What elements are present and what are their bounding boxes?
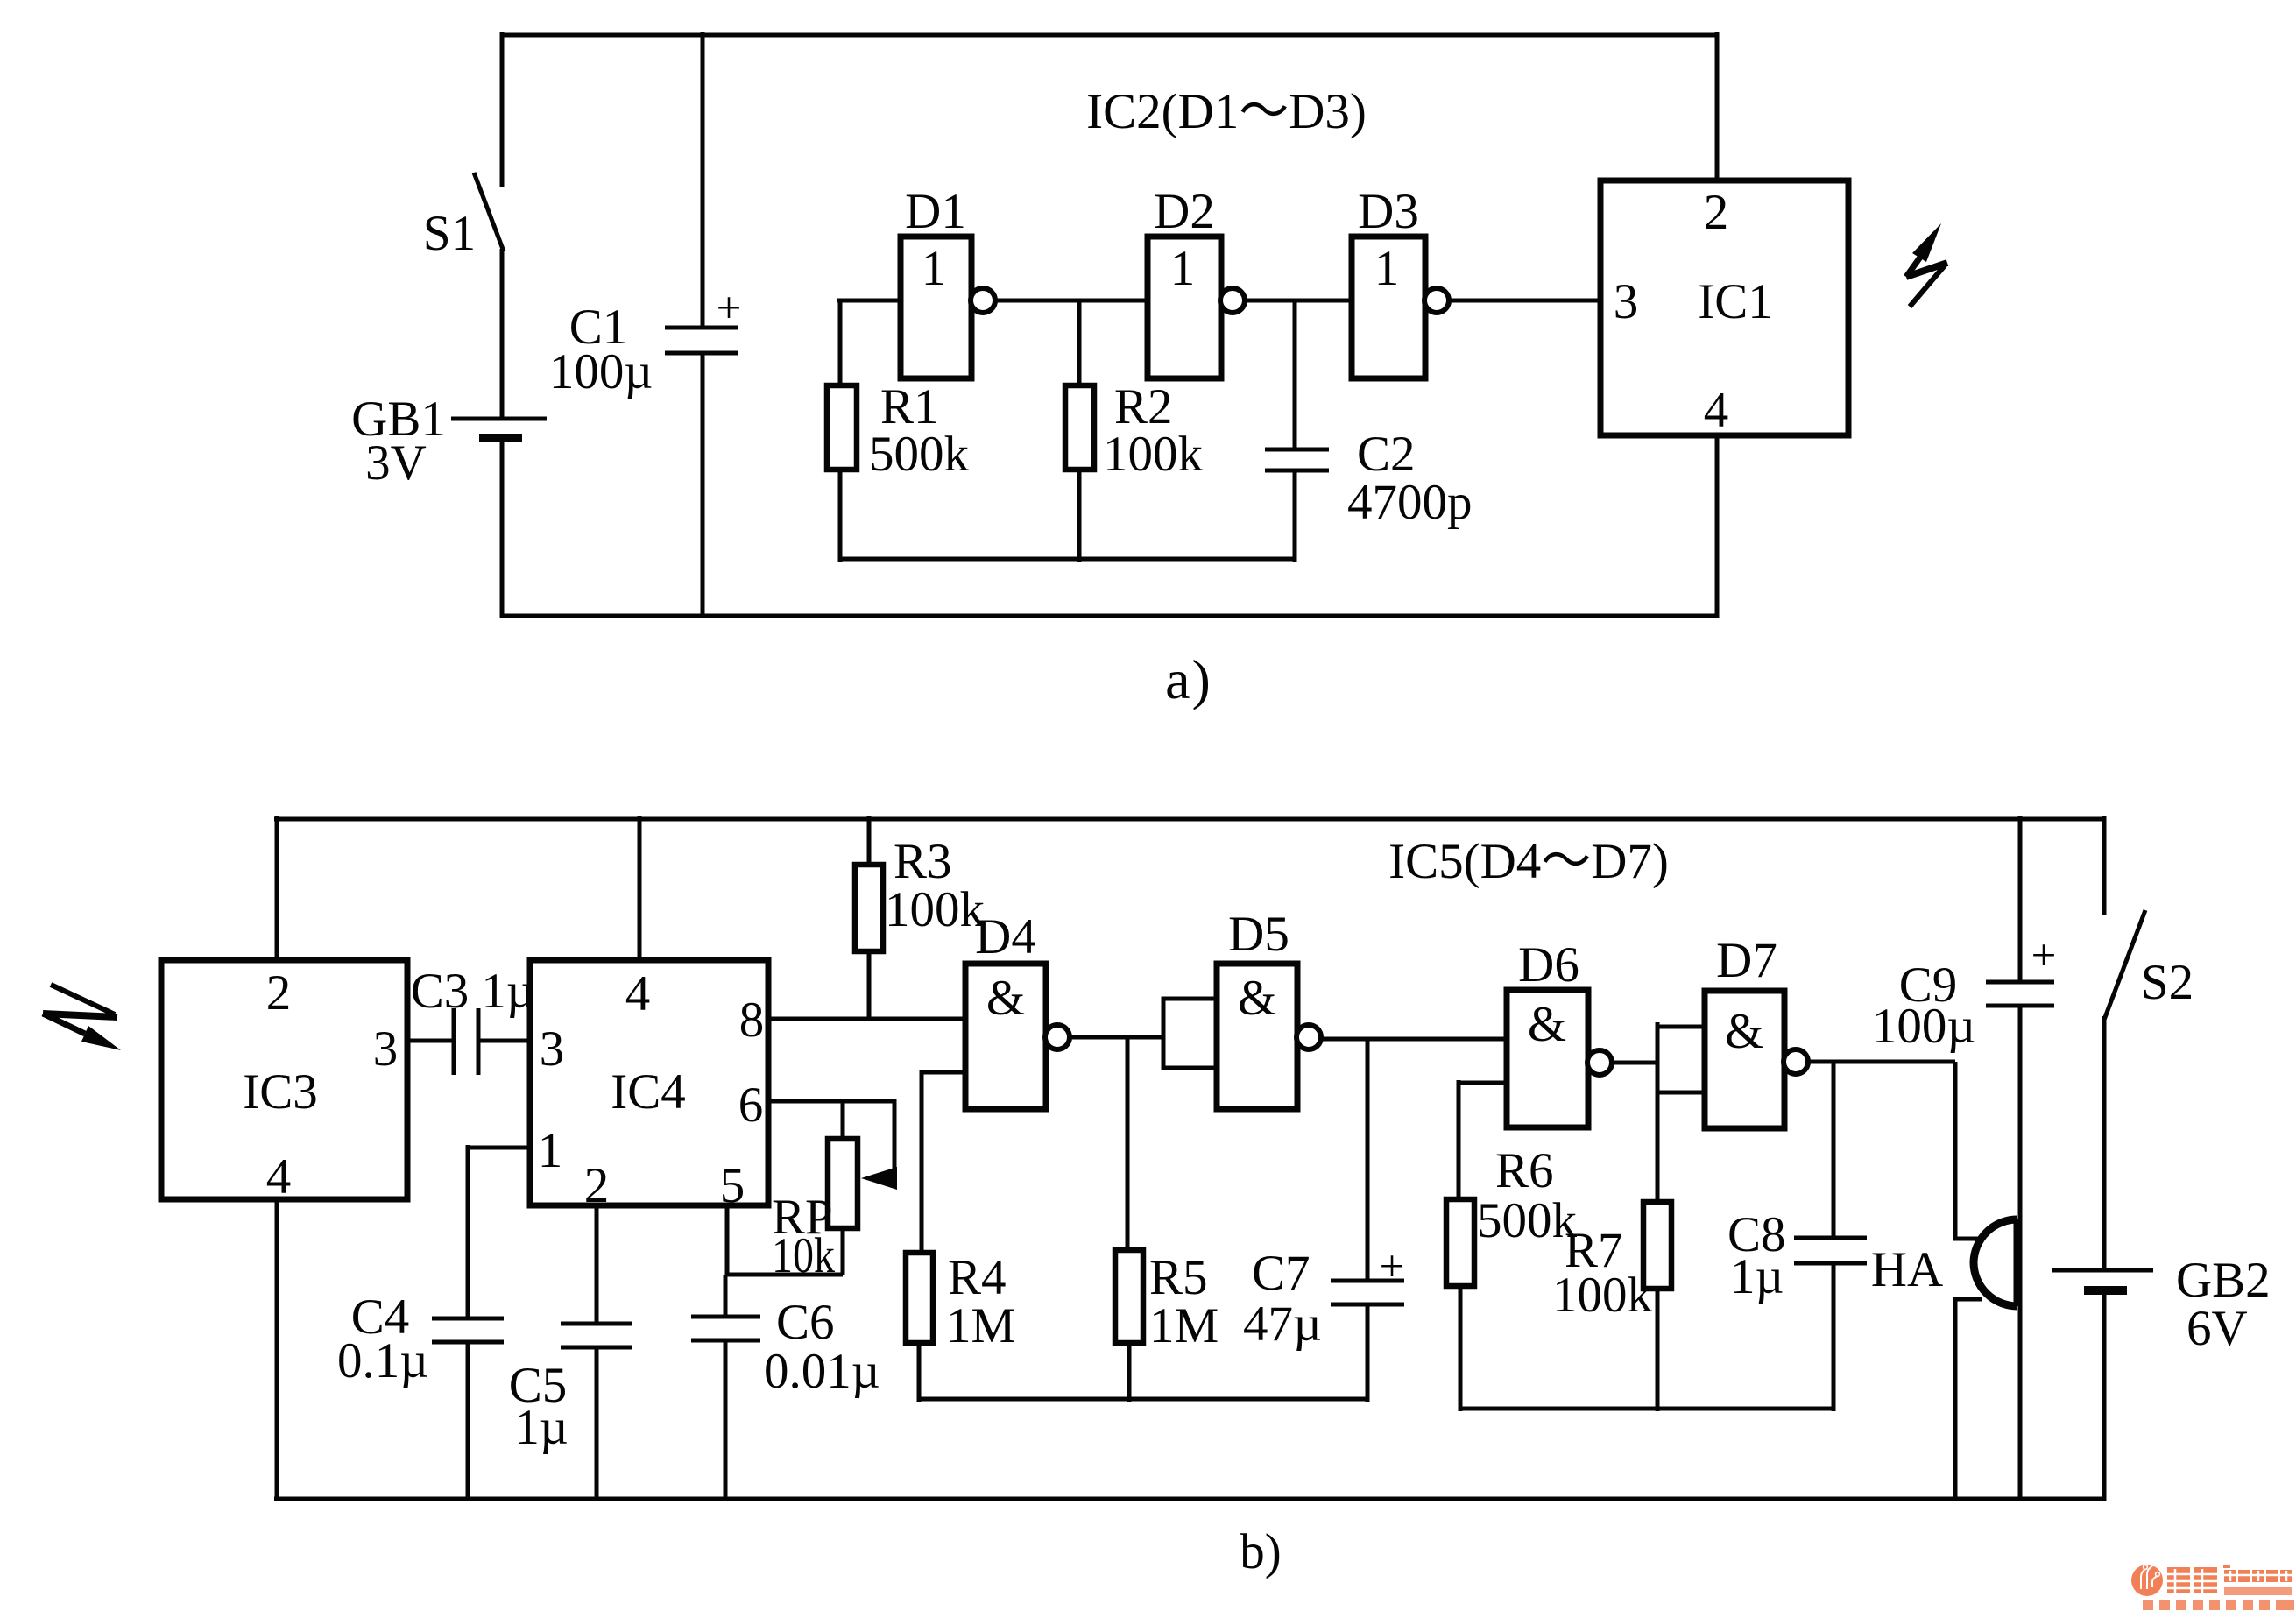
svg-text:1µ: 1µ	[1730, 1249, 1784, 1304]
battery GB2 6V	[2052, 1253, 2271, 1356]
svg-text:IC5(D4～D7): IC5(D4～D7)	[1388, 834, 1669, 889]
wire: junction drop to C2	[1293, 300, 1297, 449]
IC1 transmitter module	[1600, 180, 1848, 438]
wire: D5 output to D6 upper input	[1320, 1037, 1507, 1042]
svg-text:4: 4	[266, 1149, 292, 1205]
svg-text:6: 6	[738, 1078, 764, 1133]
svg-text:6V: 6V	[2186, 1301, 2248, 1356]
watermark brand blocks	[2167, 1565, 2292, 1593]
label IC2(D1~D3)	[1086, 84, 1367, 139]
svg-text:100µ: 100µ	[549, 344, 653, 399]
svg-text:2: 2	[1704, 185, 1729, 240]
svg-text:2: 2	[266, 965, 292, 1021]
inverter gate D3	[1352, 184, 1449, 378]
svg-text:500k: 500k	[1477, 1193, 1578, 1248]
label a)	[1165, 648, 1212, 710]
wire: bottom rail of circuit b	[274, 1497, 2104, 1501]
capacitor C5 1u	[509, 1324, 632, 1501]
wire: IC4 pin 1 stub	[468, 1146, 530, 1150]
wire: top supply rail of circuit a	[502, 33, 1717, 38]
wire: junction drop to R5	[1126, 1037, 1130, 1250]
wire: IC3 pin 4 to bottom rail	[275, 1199, 279, 1501]
wire: left vertical from top rail to switch S1	[500, 32, 505, 187]
wire: junction drop to R2	[1077, 300, 1082, 390]
inverter gate D1	[901, 184, 995, 378]
svg-text:100k: 100k	[1103, 427, 1204, 482]
svg-text:D6: D6	[1518, 937, 1579, 993]
svg-text:10k: 10k	[772, 1228, 835, 1283]
svg-text:0.01µ: 0.01µ	[764, 1344, 880, 1399]
svg-text:3: 3	[540, 1021, 565, 1077]
wire: junction drop to C8	[1832, 1062, 1836, 1238]
svg-text:&: &	[986, 971, 1025, 1026]
resistor R2 100k	[1065, 379, 1204, 562]
svg-text:IC2(D1～D3): IC2(D1～D3)	[1086, 84, 1367, 139]
svg-text:&: &	[1725, 1004, 1763, 1059]
svg-text:500k: 500k	[869, 427, 970, 482]
svg-text:IC1: IC1	[1698, 274, 1773, 329]
svg-text:4700p: 4700p	[1347, 475, 1473, 530]
svg-text:1: 1	[922, 241, 947, 296]
svg-text:IC3: IC3	[243, 1064, 318, 1120]
svg-text:100µ: 100µ	[1872, 999, 1975, 1054]
watermark url text	[2224, 1587, 2292, 1595]
svg-text:R3: R3	[894, 834, 952, 889]
svg-text:b): b)	[1240, 1524, 1281, 1579]
wire: S1 to battery GB1	[500, 249, 505, 419]
antenna radio-wave arrow of receiver	[43, 985, 121, 1050]
capacitor C2 4700p	[1265, 427, 1473, 562]
svg-text:D5: D5	[1228, 907, 1289, 962]
svg-text:HA: HA	[1871, 1242, 1943, 1297]
wire: bottom rail of circuit a	[502, 614, 1717, 618]
wire: top supply rail of circuit b	[274, 817, 2104, 822]
svg-text:D4: D4	[975, 909, 1036, 964]
svg-text:+: +	[717, 284, 742, 333]
nand gate D5	[1217, 907, 1321, 1109]
resistor R4 1M	[906, 1070, 1015, 1402]
wire: IC4 pin 2 to C5	[595, 1205, 599, 1324]
watermark logo circle	[2131, 1562, 2163, 1596]
antenna radio-wave arrow of transmitter	[1906, 223, 1947, 307]
capacitor C3 1u	[411, 964, 535, 1075]
capacitor C8 1u	[1727, 1207, 1867, 1411]
label b)	[1240, 1524, 1281, 1579]
svg-text:100k: 100k	[1552, 1268, 1653, 1323]
battery GB1 3V	[351, 392, 547, 491]
svg-text:0.1µ: 0.1µ	[337, 1333, 428, 1388]
wire: D4 lower input from R4	[922, 1070, 965, 1075]
resistor R6 500k	[1446, 1080, 1578, 1411]
svg-text:+: +	[2031, 931, 2057, 980]
svg-text:100k: 100k	[885, 882, 986, 937]
wire: buzzer feed down and stubs	[1955, 1062, 1982, 1501]
potentiometer RP 10k	[772, 1099, 897, 1283]
wire: D6 lower input from R6	[1459, 1081, 1507, 1085]
wire: D1 output to D2 input	[994, 299, 1148, 303]
wire: D6 output to D7	[1611, 1061, 1657, 1065]
wire: junction drop to C7	[1366, 1039, 1370, 1281]
svg-text:IC4: IC4	[611, 1064, 686, 1120]
svg-text:&: &	[1528, 997, 1566, 1052]
wire: IC3 pin 3 to C3	[407, 1039, 454, 1043]
wire: pin-5 junction to RP wiper-end	[727, 1273, 843, 1277]
switch S2	[2104, 816, 2194, 1020]
svg-text:C3: C3	[411, 964, 470, 1019]
svg-text:1: 1	[538, 1123, 563, 1178]
capacitor C6 0.01u	[691, 1275, 880, 1501]
svg-text:D1: D1	[905, 184, 966, 239]
wire: D2 output to D3 input	[1244, 299, 1352, 303]
wire: right drop from top rail to IC1 pin 2	[1715, 32, 1720, 180]
wire: IC4 pin 8 to D4 input	[768, 1017, 965, 1021]
nand gate D7	[1705, 933, 1808, 1128]
svg-text:a): a)	[1165, 648, 1212, 710]
svg-text:4: 4	[1704, 383, 1729, 438]
watermark slogan blocks	[2143, 1600, 2294, 1610]
svg-text:&: &	[1238, 971, 1276, 1026]
svg-text:C7: C7	[1252, 1246, 1310, 1301]
svg-text:R5: R5	[1149, 1250, 1208, 1305]
label IC5(D4~D7)	[1388, 834, 1669, 889]
resistor R3 100k	[855, 816, 986, 1019]
capacitor C4 0.1u	[337, 1145, 504, 1501]
svg-text:D7: D7	[1716, 933, 1777, 988]
svg-text:3: 3	[373, 1021, 399, 1077]
wire: IC4 pin 5 down to junction	[725, 1205, 730, 1275]
svg-text:47µ: 47µ	[1243, 1297, 1322, 1352]
svg-text:R4: R4	[948, 1250, 1007, 1305]
svg-text:R6: R6	[1495, 1143, 1554, 1198]
svg-text:S2: S2	[2141, 955, 2194, 1010]
svg-text:2: 2	[584, 1158, 610, 1213]
wire: IC4 pin 6 node to potentiometer	[768, 1099, 894, 1104]
wire: D7 output to buzzer branch	[1807, 1060, 1955, 1064]
svg-text:4: 4	[625, 966, 651, 1021]
svg-text:1: 1	[1374, 241, 1400, 296]
svg-text:D3: D3	[1358, 184, 1419, 239]
svg-text:+: +	[1380, 1242, 1405, 1291]
svg-text:GB2: GB2	[2176, 1253, 2271, 1308]
switch S1	[423, 173, 504, 261]
svg-text:S1: S1	[423, 206, 476, 261]
wire: D3 output to IC1 pin 3	[1448, 299, 1600, 303]
wire: D1 input from feedback node	[837, 299, 901, 303]
resistor R7 100k	[1552, 1202, 1671, 1411]
capacitor C9 100u electrolytic	[1872, 816, 2057, 1501]
svg-text:3: 3	[1614, 274, 1639, 329]
wire: RC feedback bottom node	[840, 557, 1295, 562]
resistor R5 1M	[1115, 1250, 1219, 1402]
buzzer HA	[1871, 1219, 2017, 1306]
wire: lower RC node of D6/D7 stage	[1459, 1407, 1833, 1411]
wire: lower RC node of D4/D5 stage	[919, 1397, 1367, 1402]
wire: D5 tied-input bracket	[1163, 999, 1217, 1068]
svg-text:1µ: 1µ	[481, 964, 534, 1019]
svg-text:3V: 3V	[365, 435, 427, 491]
capacitor C1 100u electrolytic	[549, 32, 742, 618]
capacitor C7 47u electrolytic	[1243, 1242, 1404, 1402]
svg-text:1M: 1M	[946, 1298, 1015, 1353]
svg-text:C2: C2	[1357, 427, 1416, 482]
wire: IC1 pin 4 to bottom rail	[1715, 435, 1720, 618]
IC3 receiver module	[161, 960, 407, 1205]
wire: rail drop to IC3 top (pin 2)	[275, 816, 279, 960]
svg-text:1: 1	[1170, 241, 1196, 296]
wire: rail drop to IC4 pin 4	[638, 816, 642, 960]
svg-text:5: 5	[720, 1158, 745, 1213]
nand gate D6	[1507, 937, 1612, 1127]
wire: C3 to IC4 pin 3	[478, 1039, 530, 1043]
svg-text:8: 8	[739, 993, 765, 1048]
wire: D4 output to D5	[1069, 1035, 1163, 1040]
svg-text:1µ: 1µ	[514, 1400, 568, 1455]
wire: GB1 to bottom rail	[500, 438, 505, 618]
svg-text:C6: C6	[776, 1295, 835, 1350]
svg-text:D2: D2	[1154, 184, 1215, 239]
resistor R1 500k	[827, 300, 970, 562]
IC4 amplifier module	[530, 960, 768, 1213]
nand gate D4	[965, 909, 1070, 1109]
wire: S2 to battery GB2	[2102, 1016, 2107, 1270]
wire: D7 tied-input bracket and drop to R7	[1657, 1022, 1705, 1202]
svg-text:1M: 1M	[1149, 1298, 1219, 1353]
wire: GB2 to bottom rail	[2102, 1290, 2107, 1501]
inverter gate D2	[1148, 184, 1245, 378]
